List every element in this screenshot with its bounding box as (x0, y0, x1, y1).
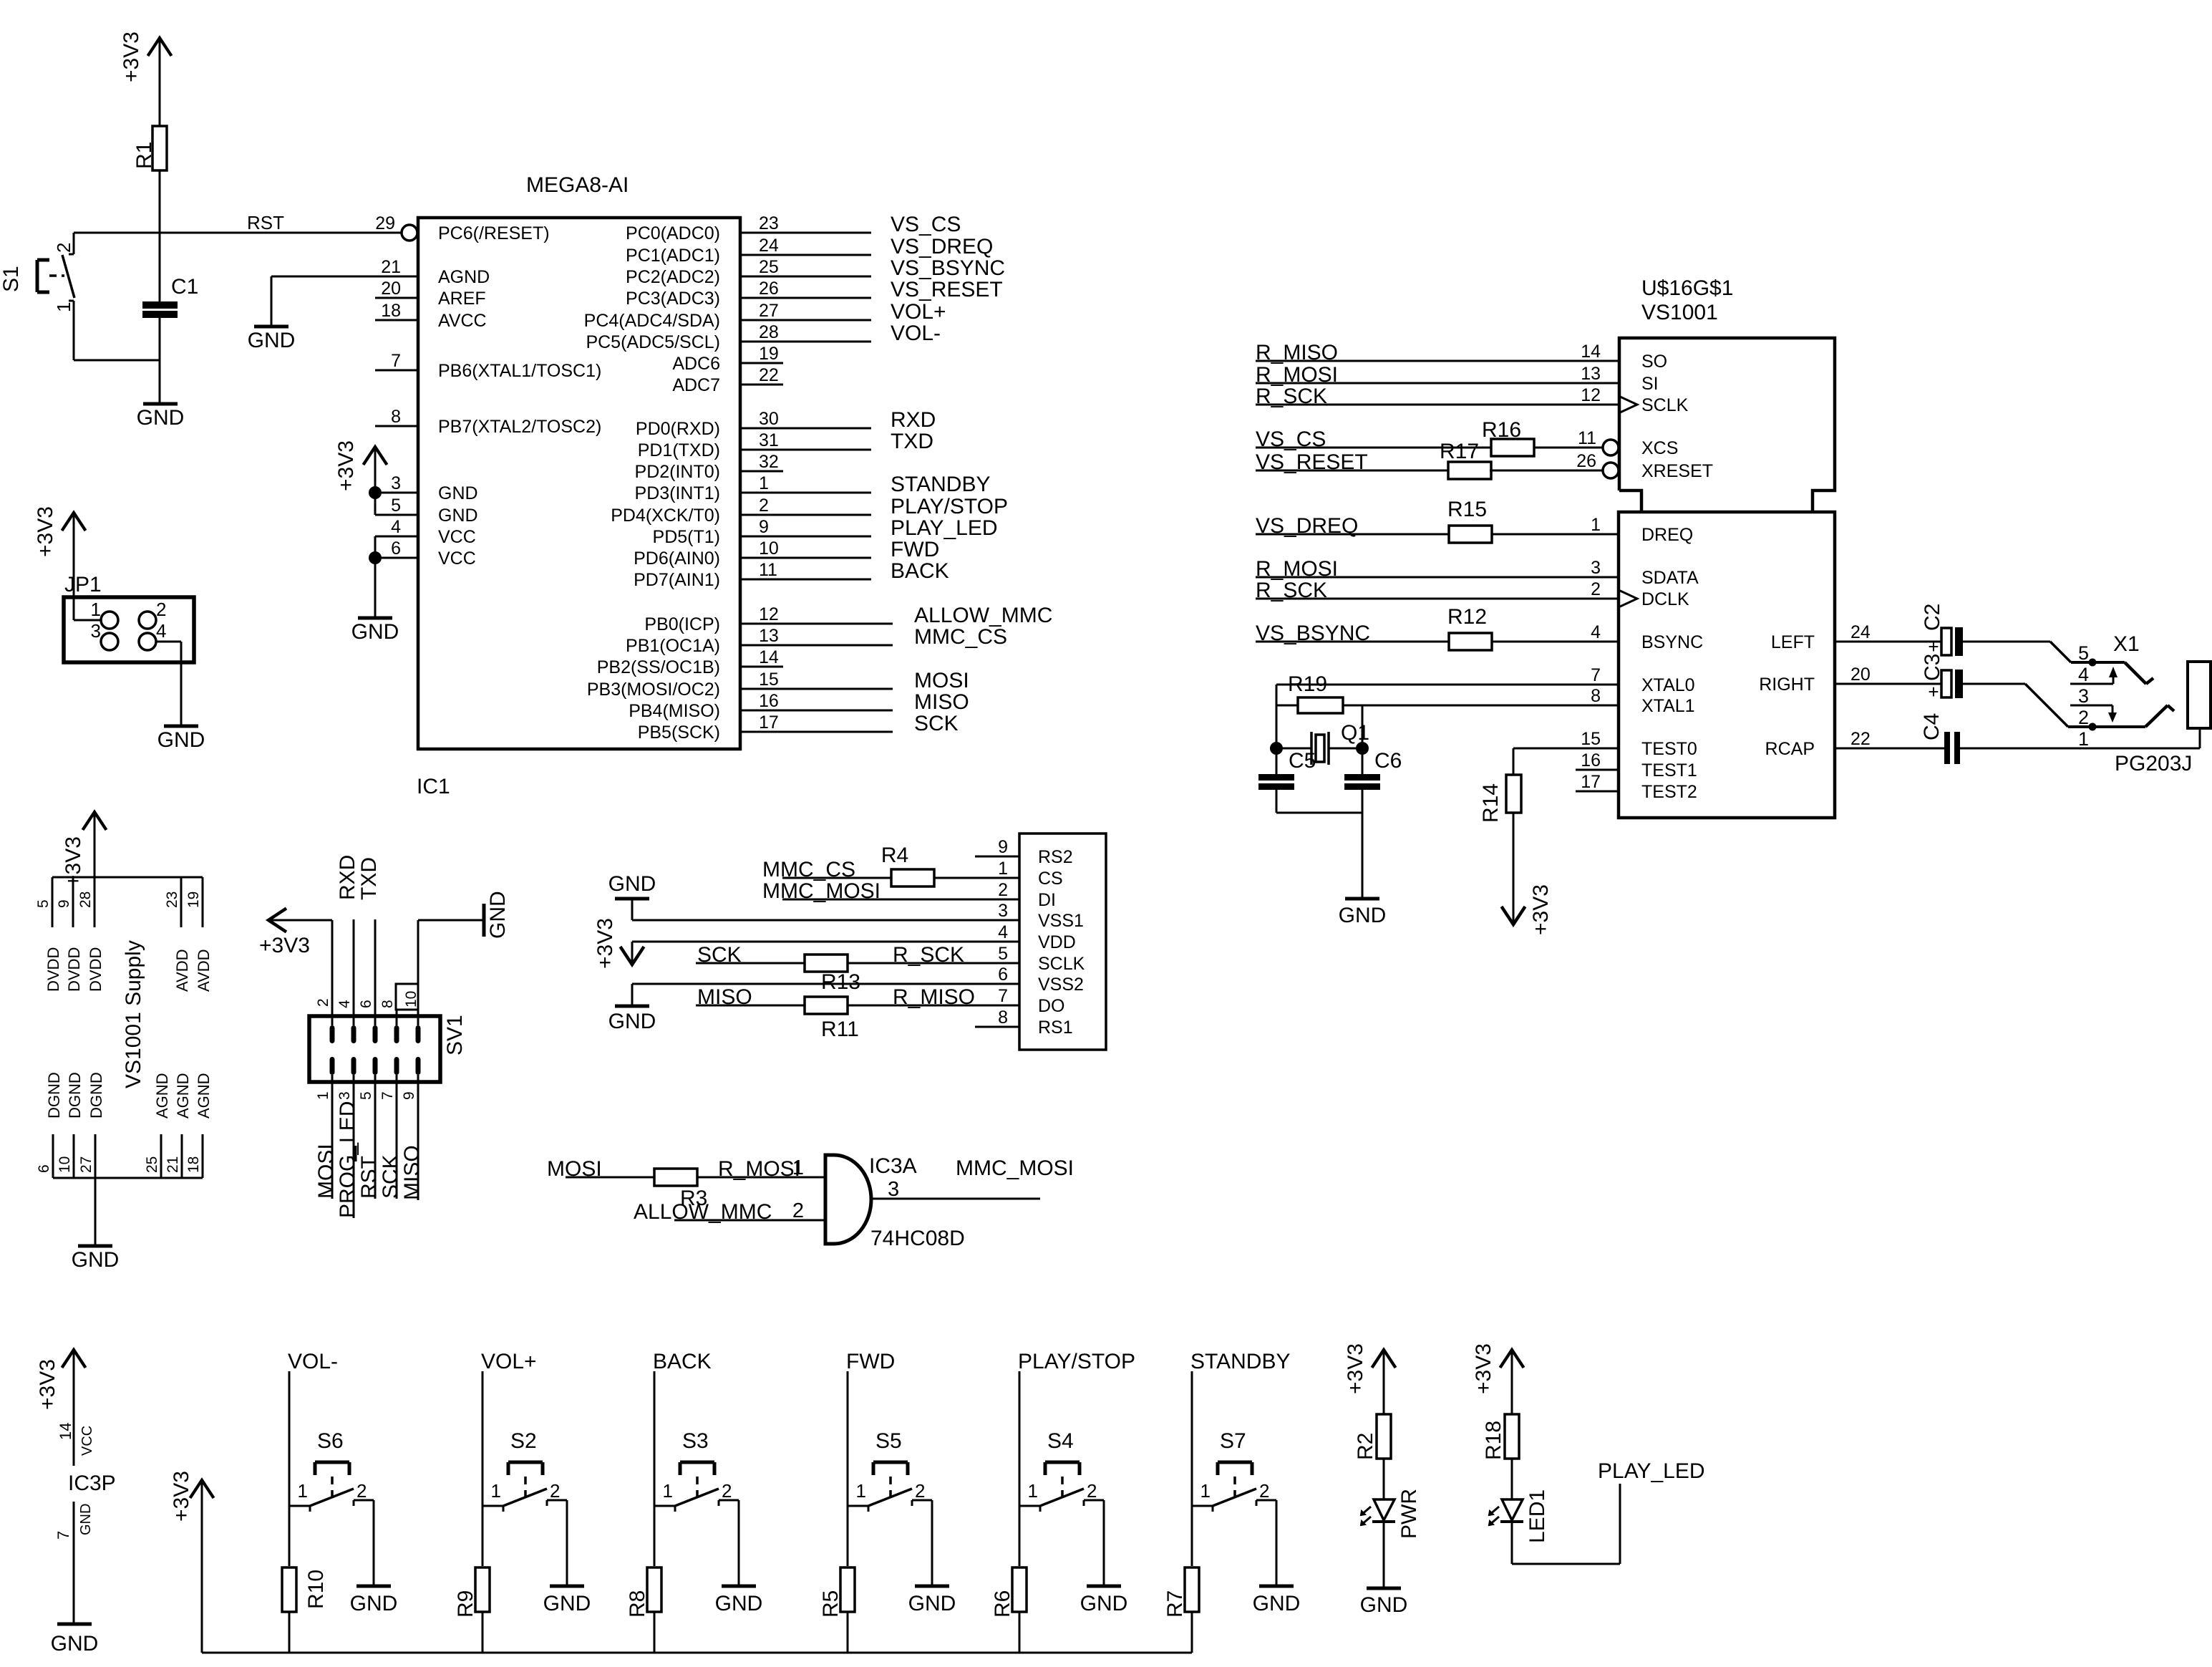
svg-text:VS_DREQ: VS_DREQ (891, 235, 993, 258)
svg-text:4: 4 (156, 620, 166, 642)
resistor R2 (1354, 1414, 1391, 1460)
IC1 pin 23 PC0(ADC0) (626, 213, 779, 243)
svg-text:+3V3: +3V3 (170, 1471, 193, 1522)
svg-text:PLAY_LED: PLAY_LED (891, 516, 998, 540)
svg-text:R_MOSI: R_MOSI (1256, 363, 1338, 387)
IC1 pin 31 PD1(TXD) (638, 430, 779, 460)
svg-text:26: 26 (759, 279, 779, 299)
svg-text:R_MISO: R_MISO (893, 985, 975, 1009)
VS1001 supply pin 5 DVDD (35, 877, 62, 992)
VS1001 supply pin 6 DGND (36, 1072, 63, 1178)
IC1 pin 19 ADC6 (672, 344, 779, 374)
wire pin 3 (375, 492, 418, 494)
svg-text:DVDD: DVDD (87, 947, 105, 992)
IC U1 body IC1 MEGA8-AI (417, 173, 740, 798)
wire PWR LED to GND (1383, 1522, 1385, 1588)
svg-text:Q1: Q1 (1341, 721, 1369, 745)
svg-text:PC6(/RESET): PC6(/RESET) (438, 223, 550, 243)
svg-text:GND: GND (1339, 904, 1387, 927)
IC1 pin 24 PC1(ADC1) (626, 236, 779, 266)
crystal Q1 (1276, 721, 1369, 765)
svg-text:PC2(ADC2): PC2(ADC2) (626, 267, 720, 287)
svg-text:STANDBY: STANDBY (1190, 1350, 1290, 1373)
resistor R15 (1447, 498, 1492, 543)
svg-text:DREQ: DREQ (1641, 525, 1693, 545)
ground (S3) (715, 1586, 763, 1615)
wire R9 to bus (482, 1612, 484, 1653)
ground (S5) (908, 1586, 956, 1615)
svg-text:3: 3 (1591, 558, 1601, 578)
wire JP1 pin1 (74, 619, 101, 622)
net ALLOW_MMC wire to gate pin 2 (634, 1199, 825, 1224)
svg-text:AVCC: AVCC (438, 311, 487, 331)
svg-text:VS_BSYNC: VS_BSYNC (1256, 622, 1370, 645)
svg-text:DVDD: DVDD (44, 947, 62, 992)
svg-text:R15: R15 (1447, 498, 1487, 521)
junction pins 3/5 (369, 486, 382, 499)
svg-text:GND: GND (908, 1592, 956, 1615)
svg-text:9: 9 (998, 837, 1008, 857)
VS1001 pin 15 TEST0 (1581, 729, 1697, 759)
svg-text:1: 1 (298, 1480, 308, 1502)
VS1001 supply pin 9 DVDD (56, 877, 83, 992)
resistor R13 (805, 955, 860, 994)
net R_MOSI wire to SI (1256, 363, 1619, 387)
wire stub pin 7 (375, 369, 418, 372)
svg-text:27: 27 (78, 1156, 94, 1173)
power +3V3 (VS1001 supply) (62, 812, 107, 887)
ground (IC1 VCC pins) (351, 618, 399, 644)
wire net FWD (740, 538, 939, 561)
svg-text:7: 7 (379, 1091, 396, 1100)
svg-text:SCK: SCK (914, 712, 959, 735)
svg-text:1: 1 (759, 473, 769, 493)
svg-text:S2: S2 (510, 1429, 537, 1453)
IC1 pin 30 PD0(RXD) (636, 409, 779, 439)
svg-text:R18: R18 (1482, 1421, 1505, 1460)
MMC pin 8 RS1 (998, 1008, 1073, 1038)
svg-text:TXD: TXD (357, 857, 381, 900)
svg-text:5: 5 (998, 944, 1008, 964)
net R_MISO wire (848, 985, 1019, 1009)
wire crystal caps to GND (1276, 812, 1362, 814)
net SCK wire (696, 943, 805, 967)
svg-text:2: 2 (915, 1480, 925, 1502)
svg-text:8: 8 (391, 407, 401, 427)
wire TEST0 (1513, 748, 1619, 750)
wire S3 pin2 to GND (738, 1500, 740, 1586)
svg-text:S4: S4 (1047, 1429, 1074, 1453)
wire S5 pin2 to GND (931, 1500, 933, 1586)
svg-text:CS: CS (1038, 869, 1063, 889)
IC1 pin 13 PB1(OC1A) (626, 626, 779, 656)
svg-text:MISO: MISO (400, 1145, 424, 1200)
VS1001 supply pin 27 DGND (78, 1072, 105, 1178)
ground (MMC VSS2) (608, 1006, 656, 1033)
IC1 pin 10 PD6(AIN0) (634, 538, 779, 569)
VS1001 pin 26 XRESET (1576, 451, 1713, 481)
svg-text:R_MOSI: R_MOSI (1256, 557, 1338, 581)
ground (IC3P) (51, 1624, 99, 1656)
svg-text:GND: GND (438, 506, 478, 526)
svg-text:MOSI: MOSI (914, 669, 969, 692)
svg-text:MMC_CS: MMC_CS (762, 858, 855, 881)
svg-text:GND: GND (248, 329, 296, 352)
svg-text:2: 2 (315, 998, 331, 1007)
IC1 pin 26 PC3(ADC3) (626, 279, 779, 309)
connector MMC body (1019, 833, 1106, 1050)
VS1001 pin 3 SDATA (1591, 558, 1699, 588)
VS1001 pin 12 SCLK (1581, 385, 1688, 415)
svg-text:R_MOSI: R_MOSI (718, 1157, 800, 1181)
IC1 pin 5 GND (391, 496, 477, 526)
svg-text:AGND: AGND (174, 1073, 192, 1118)
wire R4 to CS (934, 877, 1019, 879)
svg-text:14: 14 (57, 1423, 74, 1440)
svg-text:S5: S5 (875, 1429, 902, 1453)
wire net VOL+ (740, 300, 946, 324)
svg-text:2: 2 (356, 1480, 367, 1502)
wire VCC pins to GND (374, 558, 377, 618)
svg-text:PB1(OC1A): PB1(OC1A) (626, 636, 720, 656)
X1 pin 3 switch contact (2070, 685, 2117, 723)
junction XTAL0 node (1270, 742, 1283, 755)
MMC pin 9 RS2 (998, 837, 1073, 867)
VS1001 pin 16 TEST1 (1581, 750, 1697, 781)
svg-text:LEFT: LEFT (1771, 632, 1815, 652)
MMC pin 7 DO (998, 986, 1064, 1016)
connector JP1 (64, 573, 194, 662)
wire net VS_CS (740, 213, 961, 236)
svg-text:VCC: VCC (79, 1426, 95, 1456)
power +3V3 (JP1) (34, 506, 86, 620)
svg-text:5: 5 (2078, 642, 2089, 664)
power +3V3 (LED1) (1472, 1343, 1524, 1415)
svg-text:R10: R10 (304, 1570, 328, 1609)
svg-text:MMC_MOSI: MMC_MOSI (956, 1156, 1074, 1180)
svg-text:BSYNC: BSYNC (1641, 632, 1703, 652)
svg-text:PC4(ADC4/SDA): PC4(ADC4/SDA) (584, 311, 720, 331)
svg-text:6: 6 (358, 1000, 374, 1008)
svg-text:1: 1 (1591, 515, 1601, 535)
svg-text:28: 28 (759, 322, 779, 342)
svg-text:VS1001 Supply: VS1001 Supply (122, 940, 145, 1088)
svg-text:R1: R1 (132, 142, 156, 169)
resistor R10 (282, 1567, 328, 1612)
svg-text:XCS: XCS (1641, 438, 1678, 458)
svg-text:C6: C6 (1374, 749, 1402, 773)
svg-text:4: 4 (391, 517, 401, 537)
LED LED1 (1489, 1489, 1549, 1543)
IC U$16G$1 VS1001 lower (DSP) block (1619, 512, 1835, 818)
wire net VS_BSYNC (740, 256, 1005, 280)
IC1 pin 1 PD3(INT1) (635, 473, 769, 503)
svg-text:C2: C2 (1921, 604, 1944, 631)
svg-text:PD1(TXD): PD1(TXD) (638, 440, 720, 460)
svg-text:S7: S7 (1220, 1429, 1246, 1453)
IC U$16G$1 VS1001 upper (serial) block (1619, 276, 1835, 512)
power +3V3 (MMC VDD, down) (593, 918, 644, 969)
svg-text:GND: GND (608, 1010, 656, 1033)
wire stub (740, 384, 783, 386)
net MISO wire (696, 985, 805, 1009)
wire net TXD (740, 430, 933, 453)
svg-text:22: 22 (759, 365, 779, 385)
svg-text:R2: R2 (1354, 1433, 1377, 1460)
svg-text:GND: GND (608, 872, 656, 896)
wire JP1 pin4 to GND (156, 641, 181, 643)
wire XTAL0 (1276, 684, 1619, 686)
SV1 pin 7 net SCK (379, 1075, 402, 1199)
capacitor C5 (1258, 748, 1316, 813)
MMC pin 5 SCLK (998, 944, 1085, 974)
junction pins 4/6 (369, 551, 382, 564)
wire C1 to GND (159, 318, 161, 404)
ground (crystal) (1339, 899, 1387, 927)
wire R16 to XCS (1534, 447, 1603, 449)
VS1001 SCLK clock mark (1619, 396, 1637, 413)
svg-text:PB0(ICP): PB0(ICP) (644, 614, 720, 634)
svg-text:AGND: AGND (153, 1073, 171, 1118)
svg-text:6: 6 (391, 538, 401, 559)
wire RCAP to C4 (1835, 748, 1944, 750)
resistor R6 (991, 1567, 1027, 1618)
svg-text:+3V3: +3V3 (120, 32, 143, 82)
svg-text:RCAP: RCAP (1765, 739, 1815, 759)
svg-text:R5: R5 (819, 1590, 843, 1618)
power +3V3 (IC1 pins 3,5) (334, 440, 387, 515)
svg-text:5: 5 (358, 1091, 374, 1100)
svg-text:2: 2 (792, 1199, 804, 1222)
svg-text:PB7(XTAL2/TOSC2): PB7(XTAL2/TOSC2) (438, 417, 601, 437)
ground (JP1) (157, 726, 205, 752)
svg-text:ALLOW_MMC: ALLOW_MMC (634, 1200, 772, 1224)
IC1 pin 17 PB5(SCK) (638, 712, 779, 743)
svg-text:VS_CS: VS_CS (891, 213, 961, 236)
wire VSS2 to GND (632, 983, 1019, 985)
svg-text:VS1001: VS1001 (1641, 301, 1718, 324)
junction XTAL1 node (1356, 742, 1369, 755)
IC1 pin 12 PB0(ICP) (644, 604, 778, 634)
svg-text:FWD: FWD (891, 538, 939, 561)
svg-text:+3V3: +3V3 (36, 1359, 59, 1410)
net PLAY/STOP wire (1018, 1350, 1135, 1566)
SV1 pad bottom 1 (330, 1057, 335, 1075)
svg-text:10: 10 (57, 1156, 73, 1173)
node RST wire (74, 212, 402, 233)
wire stub pin 18 (375, 319, 418, 322)
wire stub TEST2 (1576, 791, 1619, 793)
wire R5 to bus (847, 1612, 849, 1653)
svg-text:MOSI: MOSI (547, 1157, 602, 1181)
svg-text:R8: R8 (626, 1590, 649, 1618)
wire net BACK (740, 559, 949, 583)
resistor R11 (805, 997, 859, 1041)
SV1 pad top 6 (373, 1025, 378, 1043)
svg-text:TEST1: TEST1 (1641, 760, 1697, 781)
svg-text:PD3(INT1): PD3(INT1) (635, 483, 720, 503)
svg-text:4: 4 (998, 922, 1008, 942)
svg-text:PB6(XTAL1/TOSC1): PB6(XTAL1/TOSC1) (438, 361, 601, 381)
svg-text:SCK: SCK (697, 943, 742, 967)
svg-text:PC0(ADC0): PC0(ADC0) (626, 223, 720, 243)
svg-text:SV1: SV1 (443, 1015, 467, 1055)
svg-text:2: 2 (550, 1480, 560, 1502)
wire net VOL- (740, 322, 941, 345)
power +3V3 (PWR LED) (1344, 1343, 1396, 1415)
svg-text:R_MISO: R_MISO (1256, 341, 1338, 364)
svg-text:RIGHT: RIGHT (1759, 675, 1815, 695)
svg-text:20: 20 (1850, 665, 1871, 685)
svg-text:R6: R6 (991, 1590, 1014, 1618)
ground (VS1001 supply) (72, 1246, 120, 1272)
net PLAY_LED wire (1512, 1459, 1705, 1564)
power +3V3 (reset pull-up) (120, 32, 172, 127)
svg-text:VCC: VCC (438, 549, 476, 569)
wire stub (740, 470, 783, 473)
svg-text:IC3P: IC3P (68, 1472, 116, 1495)
switch S4 (1019, 1429, 1104, 1512)
resistor R3 (654, 1169, 707, 1210)
wire pin 5 (375, 514, 418, 516)
svg-text:RXD: RXD (891, 408, 936, 432)
svg-text:1: 1 (792, 1156, 804, 1179)
svg-text:11: 11 (1578, 428, 1596, 448)
svg-text:SI: SI (1641, 374, 1659, 394)
svg-text:1: 1 (998, 859, 1008, 879)
resistor R8 (626, 1567, 661, 1618)
IC1 pin 28 PC5(ADC5/SCL) (586, 322, 778, 352)
svg-text:PWR: PWR (1397, 1489, 1421, 1539)
svg-text:TXD: TXD (891, 430, 933, 453)
wire S6 pin2 to GND (373, 1500, 375, 1586)
svg-text:VS_DREQ: VS_DREQ (1256, 514, 1358, 538)
svg-text:AGND: AGND (195, 1073, 213, 1118)
VS1001 pin 7 XTAL0 (1591, 665, 1694, 695)
svg-text:1: 1 (2078, 728, 2089, 750)
svg-text:RXD: RXD (336, 855, 359, 900)
svg-text:GND: GND (78, 1504, 94, 1535)
wire R12 to BSYNC (1492, 641, 1619, 643)
svg-text:MMC_CS: MMC_CS (914, 625, 1007, 649)
VS1001 pin 1 DREQ (1591, 515, 1693, 545)
svg-text:5: 5 (391, 496, 401, 516)
resistor R5 (819, 1567, 855, 1618)
net R_MOSI wire to SDATA (1256, 557, 1619, 581)
svg-text:C3: C3 (1921, 654, 1944, 681)
svg-text:RST: RST (247, 212, 284, 233)
svg-text:XTAL0: XTAL0 (1641, 675, 1695, 695)
svg-text:IC3A: IC3A (869, 1154, 917, 1178)
IC1 pin 29 PC6(/RESET) (375, 213, 549, 243)
wire C3 to jack pin 2 (1963, 683, 2025, 685)
svg-text:GND: GND (351, 620, 399, 644)
wire S1 pin1 down to C1 bottom (73, 301, 75, 360)
VS1001 supply pin 23 AVDD (164, 877, 191, 992)
net MOSI wire (547, 1157, 654, 1181)
svg-text:15: 15 (1581, 729, 1601, 749)
svg-text:+3V3: +3V3 (34, 506, 57, 557)
svg-text:SDATA: SDATA (1641, 568, 1699, 588)
svg-text:RST: RST (357, 1156, 381, 1199)
MMC pin 1 CS (998, 859, 1063, 889)
wire stub pin 8 (375, 425, 418, 427)
svg-text:GND: GND (1253, 1592, 1301, 1615)
wire net SCK (740, 712, 959, 735)
svg-text:23: 23 (164, 892, 180, 908)
svg-text:+3V3: +3V3 (1344, 1343, 1367, 1394)
svg-text:S1: S1 (0, 266, 23, 292)
svg-text:30: 30 (759, 409, 779, 429)
svg-text:3: 3 (2078, 685, 2089, 707)
wire +3V3 button bus (202, 1652, 1192, 1654)
svg-text:12: 12 (759, 604, 779, 624)
wire stub TEST1 (1576, 769, 1619, 771)
svg-text:2: 2 (1087, 1480, 1097, 1502)
SV1 pad bottom 5 (373, 1057, 378, 1075)
SV1 pin 10 frame (396, 984, 419, 1010)
svg-text:AREF: AREF (438, 289, 486, 309)
svg-text:7: 7 (391, 351, 401, 371)
MMC pin 2 DI (998, 880, 1056, 910)
svg-text:+3V3: +3V3 (1529, 884, 1553, 935)
svg-text:R17: R17 (1440, 440, 1479, 463)
SV1 pad top 4 (351, 1025, 356, 1043)
svg-text:+: + (1928, 681, 1939, 702)
svg-text:32: 32 (759, 452, 779, 472)
resistor R4 (881, 844, 934, 886)
svg-text:PLAY/STOP: PLAY/STOP (891, 495, 1008, 518)
svg-text:3: 3 (998, 901, 1008, 921)
wire R1 to C1 (159, 170, 161, 301)
wire net RXD (740, 408, 936, 432)
svg-text:R_SCK: R_SCK (1256, 579, 1327, 602)
svg-text:18: 18 (185, 1156, 202, 1173)
svg-text:AGND: AGND (438, 267, 490, 287)
wire RIGHT to C3 (1835, 683, 1941, 685)
svg-text:ALLOW_MMC: ALLOW_MMC (914, 604, 1052, 627)
svg-text:S6: S6 (317, 1429, 344, 1453)
svg-text:5: 5 (35, 899, 52, 908)
VS1001 XRESET inversion bubble (1603, 463, 1619, 478)
wire stub (740, 362, 783, 364)
VS1001 supply pin 25 AGND (144, 1073, 171, 1178)
svg-text:24: 24 (1850, 622, 1871, 642)
VS1001 pin 4 BSYNC (1591, 622, 1703, 652)
net VOL- wire (288, 1350, 338, 1566)
svg-text:3: 3 (391, 473, 401, 493)
net R_MISO wire to SO (1256, 341, 1619, 364)
IC3P pin 14 VCC (57, 1350, 95, 1466)
svg-text:MOSI: MOSI (314, 1144, 338, 1199)
svg-text:4: 4 (1591, 622, 1601, 642)
svg-text:PLAY/STOP: PLAY/STOP (1018, 1350, 1135, 1373)
VS1001 pin 2 DCLK (1591, 579, 1689, 609)
svg-text:PB5(SCK): PB5(SCK) (638, 723, 720, 743)
IC1 pin 22 ADC7 (672, 365, 779, 395)
svg-text:13: 13 (759, 626, 779, 646)
svg-text:10: 10 (759, 538, 779, 559)
svg-text:12: 12 (1581, 385, 1601, 405)
net R_MOSI wire to gate pin 1 (697, 1156, 825, 1181)
svg-text:8: 8 (1591, 686, 1601, 706)
resistor R1 (132, 126, 167, 170)
IC1 pin 25 PC2(ADC2) (626, 257, 779, 287)
power +3V3 (button bus) (170, 1471, 214, 1653)
wire R8 to bus (654, 1612, 656, 1653)
resistor R16 (1482, 418, 1534, 456)
capacitor C1 (142, 275, 198, 318)
